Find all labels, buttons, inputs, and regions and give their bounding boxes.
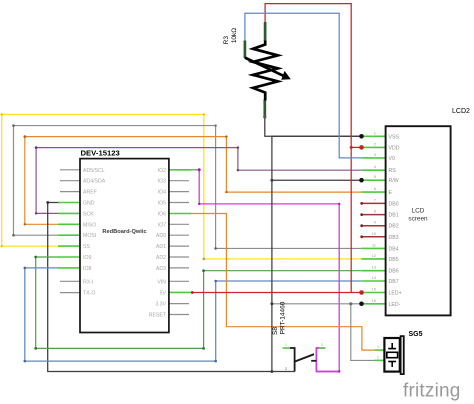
bend dot purple left top [35, 146, 38, 149]
svg-text:VDD: VDD [389, 145, 400, 151]
junction GND vertical on button GND wire [270, 370, 273, 373]
pushbutton S8 actuator diagonal [295, 354, 314, 361]
U1 pin GND stub [58, 202, 80, 204]
bend dot blue bottom left [24, 360, 27, 363]
svg-text:DB6: DB6 [389, 269, 399, 275]
svg-text:LED+: LED+ [389, 291, 402, 297]
U1 pin IO9 stub [58, 256, 80, 258]
bend dot green bottom right [202, 347, 205, 350]
LCD2 pin 8 DB1 stub [361, 214, 385, 216]
LCD2 pin numbers [372, 130, 377, 302]
U1 pin IO3 stub [169, 180, 189, 182]
U1 pin IO2 stub [169, 169, 191, 171]
svg-text:14: 14 [372, 275, 377, 280]
pushbutton S8 pin 3 stub [319, 347, 326, 349]
svg-text:AD2: AD2 [156, 255, 166, 261]
svg-text:13: 13 [372, 265, 377, 270]
svg-text:IO6: IO6 [158, 212, 166, 218]
op board U1 DEV-15123 RedBoard-Qwiic body [80, 159, 169, 333]
bend dot gray at DB4 [214, 247, 217, 250]
U1 pin SCK stub [58, 212, 80, 214]
wire potentiometer bottom to LCD VSS (black) [265, 118, 362, 137]
red wire start dot at 5V [191, 291, 194, 294]
LCD2 pin 11 DB4 stub [361, 247, 385, 249]
U1 pin MISO stub [58, 223, 80, 225]
bend dot magenta mid corner [198, 203, 200, 205]
LCD DB1 stub tip dot [360, 213, 363, 216]
svg-text:1: 1 [285, 343, 287, 347]
svg-text:5V: 5V [160, 291, 167, 297]
svg-text:15: 15 [372, 287, 377, 292]
bend dot yellow top-left [1, 113, 3, 115]
speaker SG5 piezo bottom element [388, 361, 396, 363]
speaker SG5 pin 2 stub [375, 359, 385, 361]
wire LCD VSS down to GND wire (black) [272, 136, 361, 371]
junction at LCD VSS [359, 134, 364, 139]
bend dot magenta bottom corner [338, 370, 340, 372]
LCD2 pin 13 DB6 stub [361, 270, 385, 272]
LCD2 pin 2 VDD stub [361, 146, 385, 148]
U1 pin IO4 stub [169, 191, 189, 193]
svg-text:IO3: IO3 [158, 179, 166, 185]
svg-text:RedBoard-Qwiic: RedBoard-Qwiic [102, 229, 146, 235]
LCD2 pin 3 V0 stub [361, 157, 385, 159]
U1 pin MOSI stub [58, 234, 80, 236]
svg-text:2: 2 [285, 367, 287, 371]
bend dot orange at E [225, 191, 227, 193]
svg-text:DB2: DB2 [389, 224, 399, 230]
svg-text:LCD2: LCD2 [452, 108, 470, 115]
svg-text:AD4/SDA: AD4/SDA [83, 179, 106, 185]
junction LED- wire on GND vertical [270, 302, 273, 305]
wire VDD branch from red vertical (red) [351, 146, 361, 148]
pushbutton S8 left contact bracket [290, 348, 295, 372]
U1 pin AD5/SCL stub [60, 169, 80, 171]
bend dot purple at RS [237, 169, 239, 171]
potentiometer R3 resistor zigzag body [253, 41, 278, 101]
svg-text:RX-I: RX-I [83, 279, 93, 285]
svg-text:IO4: IO4 [158, 190, 166, 196]
svg-text:LED-: LED- [389, 302, 401, 308]
U1 pin AD4/SDA stub [60, 180, 80, 182]
svg-text:DB5: DB5 [389, 257, 399, 263]
wire SCK to LCD RS (purple) [36, 148, 361, 214]
svg-text:RESET: RESET [149, 313, 167, 319]
svg-text:DB3: DB3 [389, 235, 399, 241]
speaker SG5 piezo middle rect [387, 352, 398, 357]
bend dot blue IO8 corner [24, 267, 27, 270]
svg-text:2: 2 [377, 355, 379, 359]
bend dot blue bottom right [214, 360, 217, 363]
wire IO8 to LCD DB7 (blue) [25, 268, 362, 361]
U1 pin SS stub [58, 245, 80, 247]
svg-text:GND: GND [83, 201, 95, 207]
svg-text:16: 16 [372, 298, 377, 303]
svg-text:R/W: R/W [389, 178, 399, 184]
LCD DB2 stub tip dot [360, 224, 363, 227]
wire SS to LCD DB5 (yellow) [2, 114, 362, 259]
svg-text:SS: SS [83, 244, 90, 250]
U1 pin AD3 stub [169, 267, 189, 269]
junction at LCD VDD [359, 145, 364, 150]
junction R/W wire on GND vertical [270, 179, 273, 182]
U1 pin AD1 stub [169, 245, 189, 247]
U1 pin IO8 stub [58, 267, 80, 269]
LCD2 pin 15 LED+ stub [361, 292, 385, 294]
LCD2 pin 12 DB5 stub [361, 258, 385, 260]
wire IO2 stub extension (green) [189, 169, 199, 171]
svg-text:screen: screen [408, 215, 428, 222]
speaker SG5 right bar [401, 336, 404, 374]
bend dot orange right [225, 135, 227, 137]
bend dot orange left bottom [24, 223, 26, 225]
bend dot green at DB6 [202, 269, 205, 272]
junction at LCD LED+ [359, 290, 364, 295]
svg-text:AREF: AREF [83, 190, 97, 196]
LCD2 pin 1 VSS stub [361, 135, 385, 137]
U1 left pin labels [83, 168, 106, 297]
U1 pin AD0 stub [169, 234, 189, 236]
wire GND to pushbutton pin2 (black) [48, 203, 295, 372]
wire 5V to LCD LED+ (red) [192, 291, 362, 293]
svg-text:PRT-14460: PRT-14460 [280, 301, 287, 334]
svg-text:E: E [389, 190, 393, 196]
svg-text:12: 12 [372, 253, 377, 258]
junction at LCD LED- [359, 302, 364, 307]
svg-text:IO7: IO7 [158, 222, 166, 228]
bend dot gray right top [214, 124, 216, 126]
junction at LCD R/W [359, 178, 364, 183]
bend dot green IO9 corner [34, 256, 37, 259]
svg-text:fritzing: fritzing [403, 381, 461, 402]
U1 pin 3.3V stub [169, 303, 189, 305]
svg-text:DB0: DB0 [389, 201, 399, 207]
wire LCD LED- to GND vertical (gray) [272, 303, 361, 305]
wire potentiometer top to LED+ (red) [265, 4, 351, 293]
svg-text:1: 1 [377, 345, 379, 349]
bend dot purple left bottom [35, 212, 37, 214]
U1 pin RX-I stub [60, 280, 80, 282]
svg-text:DEV-15123: DEV-15123 [81, 149, 120, 158]
wire speaker pin2 to LED- net (gray) [351, 304, 375, 361]
bend dot blue at DB7 [214, 280, 217, 283]
svg-text:SCK: SCK [83, 211, 94, 217]
svg-text:DB7: DB7 [389, 279, 399, 285]
U1 right pin labels [149, 168, 167, 319]
bend dot magenta at IO2 wire start [198, 168, 201, 171]
svg-text:TX-O: TX-O [83, 291, 95, 297]
pushbutton S8 actuator tick [311, 360, 316, 362]
svg-text:SG5: SG5 [409, 331, 423, 338]
U1 pin TX-O stub [60, 292, 80, 294]
pushbutton S8 right contact bracket (under magenta wire) [316, 348, 339, 372]
svg-text:3.3V: 3.3V [155, 302, 166, 308]
U1 pin VIN stub [169, 280, 189, 282]
pushbutton S8 pin 1 stub [283, 347, 291, 349]
svg-text:DB1: DB1 [389, 213, 399, 219]
wire IO9 to LCD DB6 (green) [36, 257, 362, 348]
bend dot yellow bottom-left [1, 245, 3, 247]
svg-text:MISO: MISO [83, 222, 96, 228]
svg-text:IO9: IO9 [83, 255, 91, 261]
wire IO2 to pushbutton pin3 (magenta) [199, 170, 339, 372]
wire MOSI to LCD DB4 (gray) [14, 126, 362, 249]
wire MISO to LCD E (orange) [25, 137, 362, 225]
LCD2 pin labels [389, 134, 402, 307]
bend dot purple right top [237, 146, 239, 148]
PIN STUBS [58, 136, 386, 360]
LCD2 pin 4 RS stub [361, 169, 385, 171]
svg-text:R3: R3 [223, 36, 230, 45]
potentiometer R3 wiper arrowhead [281, 71, 291, 80]
U1 pin AREF stub [60, 191, 80, 193]
junction speaker gray wire on LED- wire [349, 302, 352, 305]
potentiometer R3 wiper pin [244, 41, 247, 59]
LCD2 pin 7 DB0 stub (unconnected, dark red) [361, 202, 385, 204]
speaker SG5 pin 1 stub [375, 349, 385, 351]
bend dot yellow at DB5 [203, 258, 206, 261]
LCD2 pin 14 DB7 stub [361, 280, 385, 282]
LCD2 pin 9 DB2 stub [361, 225, 385, 227]
svg-text:RS: RS [389, 168, 397, 174]
U1 pin 5V stub [169, 291, 192, 293]
svg-text:MOSI: MOSI [83, 233, 96, 239]
svg-text:LCD: LCD [412, 208, 425, 215]
bend dot orange left top [24, 135, 27, 138]
svg-text:VIN: VIN [157, 279, 166, 285]
bend dot gray left bottom [12, 234, 15, 237]
bend dot yellow top-right [203, 113, 205, 115]
svg-text:IO2: IO2 [158, 168, 166, 174]
svg-text:IO8: IO8 [83, 266, 91, 272]
U1 pin IO7 stub [169, 223, 189, 225]
LCD2 LCD screen body [386, 126, 451, 315]
svg-text:3: 3 [321, 343, 323, 347]
svg-text:V0: V0 [389, 156, 395, 162]
wire IO6 to speaker pin1 (orange) [189, 214, 375, 351]
speaker SG5 body box [384, 338, 399, 372]
U1 pin AD2 stub [169, 256, 189, 258]
svg-text:VSS: VSS [389, 134, 400, 140]
svg-text:AD5/SCL: AD5/SCL [83, 168, 105, 174]
bend dot magenta right corner [338, 203, 340, 205]
U1 pin IO6 stub [169, 213, 191, 215]
bend dot green bottom left [34, 347, 37, 350]
potentiometer R3 wiper arrow shaft [245, 58, 284, 77]
svg-text:AD3: AD3 [156, 266, 166, 272]
LCD2 pin 16 LED- stub [361, 303, 385, 305]
LCD DB3 stub tip dot [360, 235, 363, 238]
svg-text:10: 10 [372, 231, 377, 236]
bend dot gray left top [12, 124, 15, 127]
svg-text:IO5: IO5 [158, 201, 166, 207]
speaker SG5 piezo top element [391, 343, 393, 349]
potentiometer R3 bottom pin [263, 100, 266, 117]
svg-text:10kΩ: 10kΩ [231, 28, 238, 43]
potentiometer R3 bottom pin tip [263, 115, 266, 118]
svg-text:AD0: AD0 [156, 233, 166, 239]
U1 pin RESET stub [169, 314, 189, 316]
svg-text:DB4: DB4 [389, 246, 399, 252]
bend dot black GND corner [46, 201, 49, 204]
svg-text:AD1: AD1 [156, 244, 166, 250]
potentiometer R3 top pin [264, 22, 267, 42]
svg-text:S8: S8 [272, 327, 279, 335]
LCD DB0 stub tip dot [360, 202, 363, 205]
LCD2 pin 10 DB3 stub [361, 236, 385, 238]
LCD2 pin 5 R/W stub [361, 179, 385, 181]
LCD2 pin 6 E stub [361, 191, 385, 193]
junction VDD branch on red vertical [350, 146, 353, 149]
wire potentiometer wiper to LCD V0 (blue) [245, 13, 361, 158]
U1 pin IO5 stub [169, 202, 189, 204]
wire LCD R/W to GND vertical (black) [272, 179, 361, 181]
